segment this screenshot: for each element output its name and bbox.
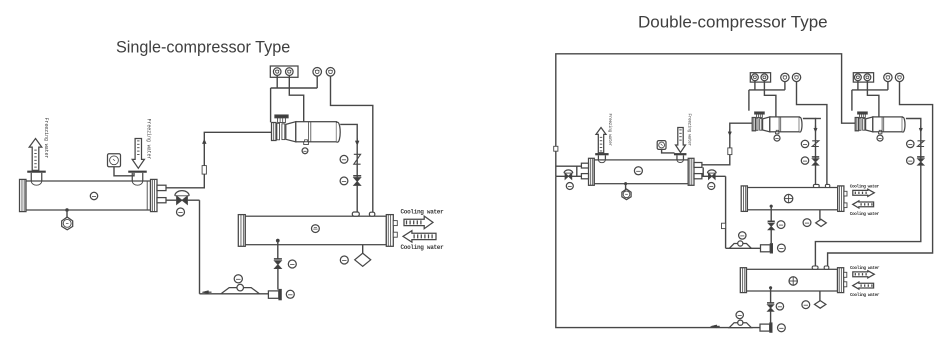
pipe SV5 to fitting <box>770 230 772 244</box>
freezing water outlet arrow <box>29 139 42 171</box>
label circle CV3 <box>907 140 914 147</box>
stop valve SV6 <box>767 302 774 304</box>
label circle M3 <box>877 135 883 141</box>
label circle on CD3 <box>789 277 797 285</box>
label circle SV1 <box>340 177 348 185</box>
main suction header <box>556 54 855 177</box>
wire panel3-suction <box>857 81 859 90</box>
CD1 water port A <box>393 221 397 226</box>
label circle SV2 <box>288 260 296 268</box>
wire panel2-body <box>764 81 776 117</box>
pipe SV2 to fitting <box>277 269 279 290</box>
pipe EV2 upper R to compressor 1 <box>702 123 752 165</box>
label circle D2 <box>803 219 811 227</box>
wire TI2 to nozzle <box>662 149 675 153</box>
EV1 liquid port <box>157 198 166 203</box>
EV1 drain tap <box>65 208 68 211</box>
label circle on EV1 <box>90 192 97 199</box>
stop valve SV5 <box>768 220 775 222</box>
CD1 inlet nozzle B <box>369 212 374 216</box>
cooling water arrow CD3 in <box>853 271 875 278</box>
gauge panel P3 <box>853 73 873 82</box>
sight glass D2 <box>816 219 827 226</box>
compressor M3 <box>855 118 858 131</box>
check valve CV2 <box>812 141 819 147</box>
svg-text:Freezing water: Freezing water <box>607 114 612 147</box>
CD3 inlet nozzle B <box>824 266 829 269</box>
globe valve V2 (EV2 left) <box>556 175 582 177</box>
EV2 left upper port <box>581 163 588 168</box>
evaporator EV1 shell <box>20 179 27 211</box>
compressor M1 <box>272 123 277 141</box>
wire M3-G4 to condenser 2 <box>828 82 933 267</box>
gauge G4 <box>326 68 335 77</box>
gauge panel P1 <box>270 66 298 77</box>
check valve CV3 <box>918 141 925 147</box>
liquid pipe V3 down <box>725 176 727 248</box>
EV1 suction port <box>157 185 166 190</box>
label circle S2 <box>739 232 746 239</box>
label circle on CD1 <box>312 225 320 233</box>
svg-text:Freezing water: Freezing water <box>43 118 49 159</box>
stop valve SV2 <box>274 258 282 260</box>
sight glass D1 <box>355 253 371 266</box>
gauge panel P2 <box>750 73 770 82</box>
wire G4 to condenser <box>331 76 373 213</box>
thermometer TI2 <box>657 141 666 150</box>
EV2 nozzle R <box>674 153 687 155</box>
label circle M1 <box>302 148 308 154</box>
label circle CV1 <box>340 155 348 163</box>
label circle M2 <box>774 135 780 141</box>
check valve CV1 <box>354 154 361 164</box>
flow arrow down on comp1 suction <box>728 132 731 136</box>
sensor FI2 <box>622 189 631 200</box>
EV2 nozzle L <box>595 153 608 155</box>
CD2 inlet nozzle B <box>825 184 829 187</box>
strainer S2 <box>729 244 751 249</box>
label circle S3 <box>736 311 743 318</box>
cooling water arrow CD3 out <box>853 282 874 289</box>
liquid pipe to strainer <box>200 293 269 295</box>
strainer S3 <box>729 323 751 328</box>
wire panel3-body <box>867 81 879 117</box>
cooling water arrow CD2 out <box>853 201 874 208</box>
sensor tap on riser <box>202 166 206 175</box>
svg-text:Cooling water: Cooling water <box>850 293 880 298</box>
sight glass line CD2 <box>819 210 821 220</box>
CD3 water port A <box>844 272 847 277</box>
main liquid return line <box>556 176 763 327</box>
EV2 left lower port <box>581 174 588 179</box>
label circle D1 <box>340 256 348 264</box>
flow arrow left on bottom line <box>711 325 717 328</box>
condenser CD1 shell <box>238 215 245 247</box>
CD1 inlet nozzle A <box>352 212 359 216</box>
gauge M2-HP <box>752 74 759 81</box>
flow arrow down on discharge <box>355 141 359 145</box>
discharge pipe M3 <box>815 119 920 267</box>
tap on left header <box>554 146 558 151</box>
gauge M3-G4 <box>895 73 903 81</box>
label circle X2b <box>778 244 786 252</box>
pipe header to EV2 upper L <box>556 165 582 167</box>
expansion fitting X2 <box>761 245 771 252</box>
CD3 drain tap <box>769 286 772 289</box>
wire panel2-suction <box>754 81 756 90</box>
discharge pipe M2 <box>816 118 821 120</box>
svg-text:Freezing water: Freezing water <box>145 119 151 160</box>
label circle SV4 <box>907 157 914 164</box>
stop valve SV3 <box>812 156 819 158</box>
svg-text:Single-compressor Type: Single-compressor Type <box>116 39 290 57</box>
pipe SV6 to bottom line <box>770 311 772 322</box>
freezing water inlet arrow <box>132 139 144 169</box>
svg-text:Cooling water: Cooling water <box>850 184 880 189</box>
gauge M3-LP <box>864 74 871 81</box>
globe valve V3 (EV2 right) <box>702 175 726 177</box>
label circle D3 <box>802 301 810 309</box>
tap on liquid pipe <box>722 223 726 228</box>
CD1 water port B <box>393 232 397 237</box>
liquid pipe CD2 branch <box>726 247 761 249</box>
label circle on CD2 <box>784 194 792 202</box>
condenser CD3 shell <box>740 268 746 293</box>
liquid pipe down from V1 <box>199 200 201 294</box>
CD2 water port A <box>844 191 847 196</box>
gauge M2-G4 <box>792 73 800 81</box>
CD2 water port B <box>844 203 847 208</box>
flow arrow down discharge M2 <box>814 128 817 132</box>
expansion fitting X3 <box>760 324 770 331</box>
suction pipe EV1 to compressor <box>166 132 272 188</box>
label circle on EV2 <box>634 167 642 175</box>
nozzle N2 (freezing water in) <box>128 171 147 173</box>
wire panel-suction <box>276 75 278 88</box>
label circle X3 <box>778 324 786 332</box>
svg-text:Freezing water: Freezing water <box>687 114 692 147</box>
label circle X1 <box>286 290 294 298</box>
wire TI1 to nozzle <box>114 167 134 176</box>
expansion fitting X1 <box>268 291 278 298</box>
gauge M2-LP <box>761 74 768 81</box>
EV2 right lower port <box>694 174 702 179</box>
svg-text:Cooling water: Cooling water <box>850 212 880 217</box>
tap on comp1 suction <box>728 148 732 155</box>
CD2 inlet nozzle A <box>813 184 819 187</box>
compressor M2 <box>752 118 755 131</box>
stop valve SV4 <box>917 156 924 158</box>
jog upper-lower R <box>702 167 704 176</box>
wire panel-body <box>289 75 303 121</box>
cooling water outlet arrow <box>403 231 436 242</box>
flow arrow down discharge M3 <box>919 128 922 132</box>
CD1 drain tap <box>276 239 279 242</box>
label circle V3 <box>708 183 715 190</box>
cooling water arrow CD2 in <box>853 189 875 196</box>
svg-text:Cooling water: Cooling water <box>401 244 445 251</box>
label circle V2 <box>566 183 573 190</box>
globe valve V1 (EV1 liquid in) <box>166 199 200 201</box>
gauge M3-HP <box>855 74 862 81</box>
evaporator EV2 shell <box>589 158 595 185</box>
strainer S1 <box>221 288 259 294</box>
svg-text:Cooling water: Cooling water <box>850 266 880 271</box>
sensor FI1 <box>62 217 73 230</box>
svg-text:Double-compressor Type: Double-compressor Type <box>638 13 828 32</box>
gauge M3-G3 <box>884 73 892 81</box>
label circle V1 <box>177 208 185 216</box>
wire M2-G4 to condenser <box>797 82 827 186</box>
label circle SV5 <box>777 221 785 229</box>
label circle SV3 <box>801 157 808 164</box>
condenser CD2 shell <box>741 186 747 212</box>
freezing water in arrow (right diag) <box>676 128 686 153</box>
evaporator EV1 right tube sheet <box>146 181 148 210</box>
gauge HP <box>273 68 281 76</box>
flow arrow left on liquid line <box>202 291 209 294</box>
EV2 drain tap <box>624 182 627 185</box>
discharge pipe <box>340 124 357 213</box>
sight glass line CD3 <box>819 291 821 301</box>
jog upper-lower L <box>576 166 578 176</box>
CD3 inlet nozzle A <box>812 266 818 269</box>
sight glass line <box>362 245 364 254</box>
cooling water inlet arrow <box>404 216 433 229</box>
CD3 water port B <box>844 282 847 287</box>
gauge LP <box>286 68 294 76</box>
gauge G3 <box>313 68 322 77</box>
CD2 drain tap <box>770 205 773 208</box>
EV2 right upper port <box>694 163 702 168</box>
stop valve SV1 <box>353 175 361 177</box>
nozzle N1 (freezing water out) <box>27 171 46 173</box>
svg-text:Cooling water: Cooling water <box>401 209 445 216</box>
label circle S1 <box>234 275 242 283</box>
sight glass D3 <box>815 301 826 309</box>
flow arrow up on suction riser <box>202 139 206 143</box>
freezing water out arrow (right diag) <box>596 128 606 153</box>
label circle SV6 <box>776 303 783 310</box>
gauge M2-G3 <box>781 73 789 81</box>
label circle CV2 <box>801 140 808 147</box>
thermometer TI1 <box>108 154 121 167</box>
